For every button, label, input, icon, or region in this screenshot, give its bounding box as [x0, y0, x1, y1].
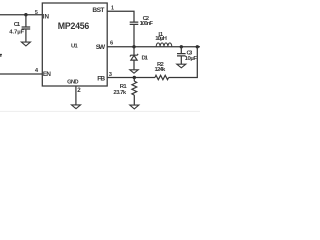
- op-amp U1 MP2456 IC body: [42, 3, 107, 86]
- svg-text:GND: GND: [67, 80, 78, 86]
- ground under R1: [130, 105, 139, 109]
- resistor R2 zigzag: [155, 75, 169, 79]
- svg-text:5: 5: [35, 10, 38, 16]
- svg-text:EN: EN: [43, 71, 51, 78]
- wire R2 to FB node: [134, 77, 155, 79]
- ground under D1: [130, 70, 138, 73]
- capacitor C1 upper lead: [25, 15, 27, 27]
- ground under C1: [21, 42, 30, 46]
- wire GND pin lead: [75, 86, 77, 105]
- svg-text:23.7k: 23.7k: [113, 90, 127, 96]
- svg-text:MP2456: MP2456: [58, 21, 90, 31]
- faint page separator line: [0, 110, 200, 112]
- svg-text:124k: 124k: [155, 67, 167, 73]
- svg-text:R1: R1: [120, 84, 128, 90]
- node FB junction: [133, 76, 136, 79]
- svg-text:1: 1: [111, 6, 114, 12]
- diode D1 cathode lead: [133, 47, 135, 55]
- wire IN input rail: [0, 14, 42, 16]
- inductor L1 humps: [156, 43, 172, 47]
- capacitor C3 upper lead: [180, 47, 182, 53]
- resistor R1 zigzag: [132, 81, 137, 95]
- capacitor C1 lower lead: [25, 30, 27, 42]
- svg-text:10µF: 10µF: [185, 56, 198, 62]
- wire EN rail: [0, 73, 42, 75]
- wire SW output rail: [107, 46, 200, 48]
- wire VOUT down to R2: [169, 47, 198, 78]
- svg-text:10µH: 10µH: [155, 36, 167, 42]
- svg-text:U1: U1: [71, 43, 78, 49]
- resistor R1 lower lead: [133, 95, 135, 105]
- diode D1 cathode bar with zener tails: [130, 54, 138, 57]
- node SW junction: [132, 45, 135, 48]
- capacitor C3 plates: [177, 54, 186, 56]
- svg-text:IN: IN: [43, 14, 50, 21]
- ground under C3: [177, 64, 186, 68]
- capacitor C1 plates: [22, 27, 31, 29]
- svg-text:D1: D1: [142, 56, 149, 62]
- node VIN junction: [24, 13, 27, 16]
- node feedback tap junction: [196, 45, 199, 48]
- capacitor C3 lower lead: [180, 57, 182, 65]
- capacitor C2 lower lead: [133, 25, 135, 47]
- svg-text:SW: SW: [96, 44, 106, 51]
- diode D1 anode lead: [133, 60, 135, 69]
- svg-text:FB: FB: [97, 76, 105, 83]
- svg-text:BST: BST: [92, 7, 104, 14]
- capacitor C2 plates: [130, 22, 139, 24]
- svg-text:C1: C1: [14, 22, 21, 28]
- left edge cut-off text fragment: [0, 55, 2, 57]
- wire BST to C2: [107, 11, 134, 21]
- diode D1 triangle: [131, 55, 137, 60]
- svg-text:2: 2: [77, 87, 81, 94]
- wire FB pin: [107, 77, 134, 79]
- node VOUT junction at C3: [180, 45, 183, 48]
- resistor R1 upper lead: [133, 78, 135, 82]
- ground under GND pin: [72, 105, 81, 109]
- svg-text:100nF: 100nF: [140, 21, 154, 27]
- svg-text:4.7µF: 4.7µF: [9, 30, 24, 36]
